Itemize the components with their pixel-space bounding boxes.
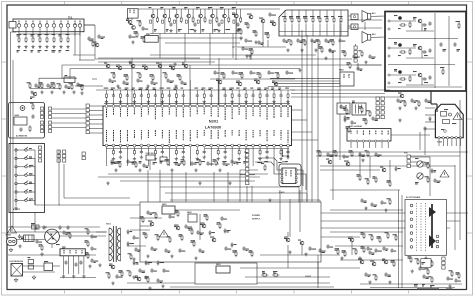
resistor R179 power primary (167, 236, 172, 243)
wire crt left v1 (398, 190, 400, 288)
capacitor C228 crt drv left (366, 246, 372, 251)
capacitor C113 IF strip (64, 84, 70, 89)
ground (144, 275, 147, 279)
resistor R113 video buffer (265, 32, 270, 39)
capacitor C131 audio rail (453, 42, 460, 51)
wire N605 pin 3 (73, 256, 75, 274)
ground AC input (9, 248, 13, 252)
transistor Q128 video out net (236, 81, 242, 86)
diode VD107 secondary (145, 260, 152, 265)
ground (198, 181, 201, 185)
svg-text:A1 KEY: A1 KEY (13, 208, 21, 211)
capacitor C198 mains filter (62, 230, 69, 235)
wire link 25 (227, 172, 229, 202)
wire AC bus2 (8, 254, 96, 256)
capacitor C234 heater (446, 276, 453, 281)
capacitor C133 IC top pin 4 (125, 88, 129, 105)
transistor Q145 crt drv left (382, 259, 388, 264)
capacitor C220 sif parts (328, 48, 335, 53)
resistor R136 IC top pin 11 (174, 88, 179, 105)
capacitor C166 remote2 (19, 127, 22, 132)
wire band long h1 (150, 37, 243, 39)
wire power h2 (130, 229, 150, 231)
svg-text:A3 CRT BOARD: A3 CRT BOARD (406, 196, 421, 199)
ground (314, 48, 317, 52)
wire link 39 (250, 52, 252, 60)
switch SB1 key (15, 147, 35, 205)
wire IC top pin 13 long (189, 80, 191, 105)
ground (161, 284, 164, 288)
resistor R232 abl (365, 178, 370, 185)
resistor R230 heater (429, 276, 434, 283)
capacitor C112 IF strip (46, 83, 52, 88)
wire audio out step2 (431, 103, 437, 105)
svg-text:N301 LA78040: N301 LA78040 (349, 125, 362, 128)
capacitor C122 video buffer (257, 40, 263, 45)
ground (131, 40, 134, 44)
ground (146, 254, 149, 258)
capacitor C146 IC bottom pin 6 (139, 147, 144, 164)
capacitor C110 tuner right (97, 34, 105, 39)
diode VD103 power primary (224, 228, 231, 233)
wire key line 5 (89, 123, 103, 125)
wire link 24 (213, 172, 215, 202)
transistor Q117 audio stage 1 (388, 15, 434, 31)
capacitor C202 line bus (66, 225, 69, 230)
transistor Q127 video out net (216, 79, 222, 84)
capacitor C126 below IF box (296, 38, 303, 43)
resistor R219 video out drv (429, 260, 434, 267)
tuner TU1 (9, 17, 84, 32)
wire remote line 5 (52, 127, 86, 129)
capacitor C236 heater (422, 274, 429, 279)
wire AC raw (96, 231, 106, 233)
wire SDA (240, 169, 258, 171)
svg-text:LA76930: LA76930 (205, 124, 222, 129)
transistor Q111 band switch stage 7 (220, 7, 230, 33)
wire link 28 (92, 78, 97, 80)
connector XP1 remote (41, 107, 44, 119)
capacitor C204 N605 (74, 262, 77, 267)
capacitor C191 power primary (242, 246, 248, 251)
audio amplifier board outline (385, 12, 466, 92)
wire sif bundle b (272, 80, 340, 82)
transformer T301 sound IF (352, 101, 366, 115)
transistor Q116 video buffer (270, 21, 276, 26)
capacitor C185 power primary (220, 216, 227, 221)
wire band row drop2 (184, 34, 186, 63)
capacitor C237 abl (360, 198, 366, 203)
capacitor C189 power primary (196, 230, 204, 235)
inductor L601 line filter (24, 235, 34, 242)
ground (340, 256, 343, 260)
wire bottom right bus (360, 283, 462, 285)
capacitor C144 IC top pin 26 (278, 88, 282, 105)
ground (218, 168, 221, 172)
wire link 14 (279, 190, 281, 220)
ground (384, 208, 387, 212)
resistor R111 video buffer (238, 28, 243, 35)
svg-text:N701: N701 (282, 162, 287, 164)
IR receiver U1 (20, 106, 25, 111)
resistor R160 video out net (257, 72, 262, 79)
capacitor C225 yoke parts (433, 178, 440, 183)
capacitor C165 remote (31, 114, 34, 119)
wire tuner pin 8 (67, 27, 69, 36)
wire eeprom right2 (297, 174, 306, 190)
capacitor C176 xfmr secondary right (134, 247, 140, 252)
resistor R227 crt drv left (373, 274, 378, 281)
capacitor C206 h-drive (308, 246, 316, 251)
wire IC bottom pin 10 (168, 147, 170, 166)
capacitor C179 xfmr left col (90, 246, 96, 251)
wire av2 (348, 25, 351, 27)
connector XS1 main (49, 107, 52, 133)
resistor R217 video out drv (408, 256, 413, 263)
ground (114, 168, 117, 172)
wire tuner bus (19, 33, 80, 35)
resistor R102 IF strip (27, 82, 32, 89)
warning symbol 1 (453, 113, 462, 120)
svg-text:BL2: BL2 (372, 34, 376, 36)
capacitor C221 sif parts (352, 54, 359, 59)
wire power h5 (140, 225, 152, 227)
ground (364, 60, 367, 64)
resistor R166 sub-IC parts (133, 161, 138, 168)
transistor Q141 v-out below (344, 161, 350, 166)
diode VD110 damper (429, 116, 432, 121)
wire key column (15, 148, 17, 206)
ground (18, 244, 21, 248)
transistor Q146 abl (380, 167, 386, 172)
wire IC right h4 (292, 139, 319, 141)
resistor R106 IF strip (69, 83, 74, 90)
ground (414, 106, 417, 110)
ground (128, 60, 131, 64)
resistor R142 IC top pin 27 (285, 88, 290, 105)
capacitor C164 video out net (285, 70, 293, 75)
switch SB4 key (15, 172, 35, 205)
transistor Q124 chroma in (156, 63, 162, 68)
capacitor C161 video out net (231, 70, 238, 75)
ground posistor (32, 275, 36, 279)
socket XS202 AV2 (351, 24, 358, 30)
wire IC sub rail 2 (205, 148, 289, 150)
wire N605 pin 1 (63, 256, 65, 274)
resistor R185 power primary (175, 210, 180, 217)
capacitor C130 audio rail (439, 42, 446, 51)
shield box N701 (279, 164, 301, 187)
resistor R105 IF strip (57, 83, 62, 90)
resistor R110 reference (141, 36, 146, 43)
IC N101 reference (127, 9, 138, 18)
capacitor C127 below IF box (310, 38, 317, 43)
resistor R133 IC top pin 5 (132, 88, 137, 105)
capacitor C218 mid small parts (339, 104, 346, 109)
wire link 4 (131, 58, 133, 106)
diode VD105 power primary (209, 230, 215, 235)
wire link 26 (239, 170, 241, 202)
capacitor C169 sub-IC parts (142, 163, 148, 168)
ground (288, 250, 291, 254)
resistor R101 tuner right (90, 40, 95, 47)
wire link 34 (429, 157, 431, 196)
wire conn h2 (64, 197, 130, 199)
resistor R207 audio in parts (402, 100, 407, 107)
ground (298, 68, 301, 72)
resistor R218 video out drv (415, 258, 420, 265)
resistor R103 IF strip (39, 82, 44, 89)
transistor Q134 power primary (210, 237, 216, 242)
wire remote line 4 (52, 122, 86, 124)
wire speaker wire1 (355, 44, 357, 46)
wire key line 7 (89, 132, 103, 134)
resistor R206 audio in parts (363, 118, 368, 125)
resistor R216 yoke parts (425, 176, 430, 183)
transistor Q142 audio in parts (398, 93, 404, 98)
transistor Q144 crt drv left (370, 261, 376, 266)
wire link 15 (330, 209, 403, 211)
capacitor C138 IC top pin 14 (194, 88, 198, 105)
capacitor C140 IC top pin 18 (222, 88, 226, 105)
resistor R195 mains filter (67, 232, 72, 239)
resistor R158 video out net (221, 72, 226, 79)
wire tuner-IF link3 (94, 25, 96, 36)
switch SB5 key (15, 181, 35, 205)
resistor R171 xfmr secondary right (128, 253, 133, 260)
resistor R189 power primary (249, 250, 254, 257)
diode VD111 yoke parts (431, 168, 436, 173)
keyboard board outline (9, 144, 45, 213)
wire N605 pin 5 (83, 256, 85, 274)
capacitor C182 power primary (164, 248, 170, 253)
wire power h4 (175, 209, 240, 211)
wire IC bottom pin 22 (252, 147, 254, 166)
resistor R183 power primary (140, 216, 145, 223)
capacitor C145 IC bottom pin 3 (118, 147, 123, 164)
resistor R196 h-drive (335, 248, 340, 255)
speaker BL2 (362, 32, 376, 43)
diode VD106 secondary (133, 260, 139, 265)
transformer T601 (106, 224, 121, 263)
resistor R200 v-out below (317, 150, 322, 157)
wire remote line 1 (52, 108, 86, 110)
wire bottom right bus2 (370, 287, 455, 289)
svg-text:TU1: TU1 (68, 17, 73, 20)
capacitor C137 IC top pin 12 (180, 88, 184, 105)
wire link 2 (189, 65, 191, 106)
wire chroma bus3 (62, 64, 381, 66)
connector XS3 (57, 150, 60, 162)
resistor R202 v-out below (349, 150, 354, 157)
resistor R164 eeprom pullup1 (261, 163, 266, 171)
wire FBT pin 3 (425, 121, 435, 123)
capacitor C231 crt drv left (390, 248, 396, 253)
wire link 20 (147, 170, 149, 202)
resistor R199 h-drive (361, 246, 366, 253)
wire secondary bus (127, 282, 330, 284)
transistor Q132 power primary (148, 221, 154, 226)
transistor Q129 video out net (254, 79, 260, 84)
wire right mid bus a (316, 151, 468, 153)
wire abl h (320, 169, 380, 171)
capacitor C115 reference (141, 26, 148, 31)
diode VD108 secondary (157, 260, 164, 265)
resistor R123 IF shield element 8 (331, 10, 335, 36)
capacitor C214 audio in parts (371, 116, 378, 121)
ground (72, 90, 75, 94)
resistor R212 sif parts (342, 50, 347, 57)
wire staircase P3 (170, 200, 450, 228)
resistor R128 below IF box (330, 39, 335, 46)
ground (170, 254, 173, 258)
ground (40, 252, 43, 256)
resistor R122 IF shield element 7 (324, 10, 328, 36)
wire link 30 (73, 54, 95, 56)
wire FBT pin 4 (425, 128, 435, 130)
small box N802 (339, 70, 354, 87)
wire IC bottom pin 7 (147, 147, 149, 166)
capacitor C235 heater (454, 278, 460, 283)
wire band row drop3 (209, 34, 211, 66)
IC N603 regulator (216, 264, 230, 273)
wire audio out step (430, 91, 432, 104)
capacitor C150 IC bottom pin 18 (222, 147, 227, 162)
connector XP10 CRT pins (410, 204, 413, 248)
resistor R156 chroma in (163, 72, 168, 79)
resistor R124 IF shield element 9 (338, 10, 343, 36)
diode VD101 xfmr secondary right (127, 229, 133, 234)
wire AC to xfmr (59, 235, 106, 237)
capacitor C101 tuner decoupling (17, 34, 22, 52)
ground (30, 90, 33, 94)
power label (252, 215, 261, 221)
warning symbol 1b (440, 170, 449, 177)
resistor R112 video buffer (253, 30, 258, 37)
resistor R104 IF strip (51, 82, 56, 89)
ground (98, 263, 101, 267)
capacitor C194 secondary (162, 268, 169, 273)
resistor R228 heater (449, 270, 454, 277)
capacitor C141 IC top pin 20 (236, 88, 240, 105)
ground (40, 90, 43, 94)
wire ref drop (131, 18, 133, 20)
wire link 36 (301, 245, 303, 255)
transistor Q135 power primary (174, 225, 180, 230)
wire bus y55 (150, 54, 316, 56)
resistor R114 video buffer (245, 22, 250, 29)
wire sif bundle c (274, 83, 340, 85)
wire link 27 (97, 85, 103, 87)
capacitor C103 tuner decoupling (31, 34, 35, 52)
wire IF bus A (39, 77, 77, 79)
ground (388, 280, 391, 284)
transistor Q119 audio stage 3 (388, 69, 434, 85)
wire link 31 (61, 65, 63, 79)
bridge rectifier VD601-604 (44, 227, 60, 245)
wire video bus (232, 46, 286, 48)
connector XS5 (82, 152, 85, 160)
ground (411, 269, 414, 273)
capacitor C109 tuner right (87, 36, 93, 41)
ground (194, 168, 197, 172)
ground (50, 90, 53, 94)
wire degauss3 (53, 265, 61, 267)
wire eeprom right1 (297, 170, 303, 186)
wire tuner-IF link2 (84, 24, 95, 26)
capacitor C196 mains filter (18, 234, 24, 239)
warning symbol 2 (160, 230, 169, 237)
ground (116, 84, 119, 88)
capacitor C118 band filter (193, 22, 196, 32)
wire right trunk a (454, 165, 456, 250)
resistor R178 power primary (155, 234, 160, 241)
capacitor C227 video out drv (418, 266, 425, 271)
IC N601 control (162, 204, 175, 214)
wire band bus mid (150, 33, 240, 35)
wire IC top pin 17 long (217, 80, 219, 105)
capacitor C139 IC top pin 16 (208, 88, 213, 105)
resistor R144 IC bottom pin 5 (132, 147, 137, 165)
flyback transformer T444 (435, 104, 463, 143)
wire h bus1 (260, 254, 340, 256)
wire tuner pin 5 (46, 27, 48, 36)
wire remote line 3 (52, 117, 86, 119)
ground (343, 118, 346, 122)
resistor R125 below IF box (288, 39, 293, 46)
capacitor C222 sif parts (368, 54, 375, 59)
resistor R116 IF shield element 1 (282, 10, 286, 36)
resistor R211 sif parts (319, 46, 324, 53)
switch SB2 key (15, 155, 35, 205)
wire IC vcc rail (104, 102, 290, 104)
wire video drop a (235, 18, 237, 47)
resistor R154 chroma in (137, 72, 142, 79)
resistor R131 IC top pin 1 (104, 88, 109, 105)
wire band row drop1 (159, 34, 161, 59)
diode VD112 abl (395, 166, 401, 171)
svg-text:SUPPLY: SUPPLY (252, 219, 261, 221)
resistor R214 sif parts (347, 62, 352, 69)
ground (132, 275, 135, 279)
resistor R191 secondary (145, 276, 150, 283)
wire eeprom arc3 (283, 149, 289, 156)
wire link 17 (369, 156, 371, 178)
wire IF shield bottom bus (279, 31, 348, 33)
ground (146, 84, 149, 88)
capacitor C134 IC top pin 6 (139, 88, 143, 105)
wire tuner pin 4 (39, 27, 41, 36)
capacitor C142 IC top pin 22 (250, 88, 254, 105)
resistor R233 abl (373, 176, 378, 183)
connector XS2 to IC (86, 104, 89, 134)
wire sif bundle a (270, 77, 340, 79)
resistor R175 xfmr left col (85, 240, 90, 247)
wire IC right h2 (292, 119, 308, 121)
resistor R235 abl (387, 198, 392, 205)
transistor Q121 chroma in (116, 65, 122, 70)
resistor R229 heater (456, 272, 461, 279)
resistor R165 sub-IC parts (117, 161, 122, 168)
wire link 32 (69, 69, 71, 80)
capacitor C207 h-drive (318, 248, 325, 253)
label crt bottom (414, 284, 435, 287)
wire FBT pin 1 (425, 107, 435, 109)
capacitor C239 abl (380, 200, 386, 205)
resistor R115 video buffer (249, 48, 254, 55)
wire audio rail 2 (448, 16, 450, 86)
capacitor C186 power primary (146, 210, 153, 215)
